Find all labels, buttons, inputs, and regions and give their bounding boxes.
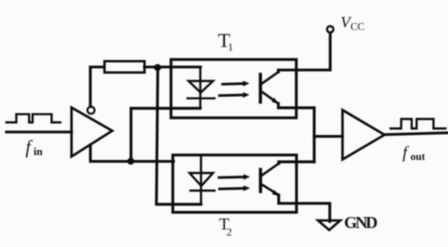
LED D2 in T2 <box>190 155 215 204</box>
wire T1 LED cathode branch <box>131 108 200 161</box>
light arrows in T2 <box>219 174 250 191</box>
wire input line <box>7 131 72 134</box>
wire buffer input <box>314 135 342 138</box>
svg-text:2: 2 <box>227 227 233 239</box>
wire T1 collector to Vcc <box>278 33 330 72</box>
wire node down to T2 LED cathode <box>156 68 201 205</box>
light arrows in T1 <box>220 81 250 98</box>
inverter bubble <box>87 107 94 114</box>
inverter gate G1 <box>72 108 113 157</box>
wire resistor to T1 LED anode <box>145 66 201 69</box>
wire output line <box>385 133 448 135</box>
svg-text:CC: CC <box>351 22 365 33</box>
LED D1 in T1 <box>188 67 215 108</box>
svg-text:out: out <box>411 152 426 163</box>
svg-text:1: 1 <box>228 42 234 54</box>
buffer gate G2 <box>343 110 385 160</box>
ground symbol <box>318 220 340 230</box>
wire middle vertical emitter-collector <box>313 108 316 162</box>
wire bubble to resistor <box>90 67 104 107</box>
phototransistor Q1 in T1 <box>260 72 278 104</box>
phototransistor Q2 in T2 <box>261 164 280 197</box>
wire T1 emitter <box>278 104 314 108</box>
wire T2 emitter to GND <box>279 195 330 222</box>
svg-text:GND: GND <box>344 213 378 232</box>
optocoupler T2 box <box>173 155 297 212</box>
resistor R <box>105 61 145 72</box>
svg-text:in: in <box>34 146 43 158</box>
input square-wave symbol <box>6 114 60 122</box>
output square-wave symbol <box>391 119 446 129</box>
Vcc terminal <box>327 26 333 32</box>
optocoupler T1 box <box>171 60 296 118</box>
wire T2 collector to middle vertical <box>279 162 315 164</box>
node junction on inverter output <box>127 158 134 165</box>
wire inverter bottom output <box>90 145 173 161</box>
node junction after resistor <box>154 64 161 71</box>
